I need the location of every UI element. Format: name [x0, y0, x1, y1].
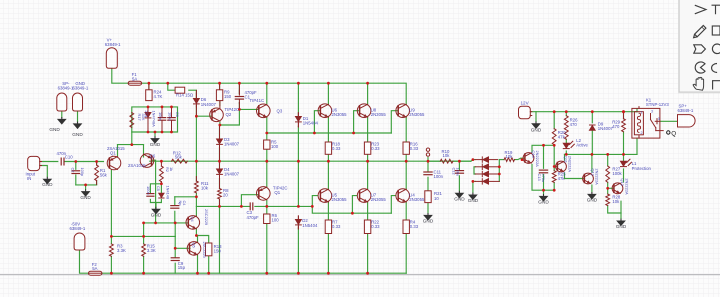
svg-text:0.33: 0.33: [332, 224, 341, 229]
wire gnd stem q13: [620, 213, 622, 218]
junction: [195, 234, 198, 237]
junction: [297, 272, 300, 275]
wire Q5 base: [175, 247, 190, 249]
svg-text:GND: GND: [587, 198, 598, 203]
connector V+ 63849-1: [106, 48, 117, 69]
wire C9 top: [174, 248, 176, 257]
junction: [313, 132, 316, 135]
wire bottom rail main: [102, 272, 406, 274]
wire Q4 emitter node: [196, 229, 208, 243]
transistor Q12 2N2222A: [583, 173, 594, 184]
junction: [161, 131, 164, 134]
resistor R20: [552, 129, 556, 145]
junction: [207, 272, 210, 275]
wire D9 top: [591, 112, 593, 123]
wire Q5 base line: [174, 236, 176, 248]
resistor R25: [552, 171, 556, 183]
wire Q6 base drop: [152, 160, 156, 223]
wire Q11 emitter to Q12 base: [565, 173, 584, 179]
wire bridge row1 entry: [471, 160, 475, 162]
transistor Q1 2SA1015: [107, 156, 121, 170]
resistor R11: [195, 181, 199, 193]
svg-text:150: 150: [224, 94, 232, 99]
junction: [265, 82, 268, 85]
ground: [58, 117, 66, 124]
wire bottom U4 emitter to R4: [405, 202, 407, 220]
wire C13 bottom: [543, 175, 545, 191]
junction: [565, 153, 568, 156]
icon text T: [712, 5, 720, 14]
ground: [538, 194, 549, 205]
wire bias column to bottom rail: [219, 206, 221, 273]
wire positive rail V+: [142, 83, 407, 104]
transistor Q6 2SA1015: [140, 154, 154, 168]
svg-text:2N3055: 2N3055: [332, 112, 348, 117]
wire R26 to LED L2: [565, 139, 567, 143]
junction: [174, 222, 177, 225]
connector -50V 63849-1: [74, 233, 85, 250]
svg-text:1N5404: 1N5404: [303, 121, 319, 126]
ground: [587, 192, 598, 203]
wire bottom U7 collector: [367, 161, 369, 189]
resistor R28: [606, 194, 610, 206]
junction: [542, 189, 545, 192]
junction: [591, 110, 594, 113]
fuse F1: [128, 81, 141, 85]
svg-text:GND: GND: [531, 128, 542, 133]
svg-text:100n: 100n: [146, 186, 151, 195]
svg-text:GND: GND: [538, 200, 549, 205]
svg-text:GND: GND: [423, 219, 434, 224]
junction: [297, 160, 300, 163]
svg-text:5A: 5A: [132, 77, 137, 82]
wire D1 column rail2 to rail3: [297, 161, 299, 206]
junction: [196, 272, 199, 275]
wire D2 to bottom rail: [297, 227, 299, 273]
icon ellipse tool: [712, 64, 718, 73]
wire R27 top: [607, 154, 609, 166]
zener ZD1 1N4748A: [145, 107, 151, 132]
svg-text:10: 10: [434, 196, 439, 201]
wire R20 bottom node: [553, 144, 555, 147]
wire tail to zener box: [131, 132, 133, 145]
ground: [468, 193, 479, 204]
svg-text:C2: C2: [71, 168, 76, 173]
wire protection node line: [565, 153, 638, 155]
wire bridge out to R19: [499, 159, 504, 161]
junction: [74, 160, 77, 163]
resistor R10: [440, 159, 453, 163]
svg-text:2N3055: 2N3055: [332, 197, 348, 202]
transistor Q10 2N2222A: [523, 153, 534, 164]
svg-text:Active: Active: [576, 142, 588, 147]
svg-text:56k: 56k: [175, 155, 183, 160]
wire C4 to line A: [174, 211, 176, 223]
svg-text:100: 100: [271, 144, 279, 149]
wire GND pill stub: [77, 111, 79, 122]
wire Q5 collector: [197, 236, 199, 243]
wire C1 bottom to Q3 base: [238, 103, 240, 110]
svg-text:150: 150: [214, 248, 222, 253]
svg-text:63849-1: 63849-1: [105, 42, 121, 47]
wire R6 to bottom rail: [266, 224, 268, 274]
connector SP+ 63849-1: [678, 115, 696, 127]
svg-text:GND: GND: [42, 182, 53, 187]
svg-text:1N4007: 1N4007: [201, 102, 217, 107]
wire R24 branch: [148, 83, 150, 90]
capacitor C5 100n: [158, 107, 165, 132]
svg-text:1: 1: [641, 111, 643, 115]
junction: [154, 131, 157, 134]
capacitor C8 100u: [168, 107, 175, 132]
wire R28 bottom to gnd node: [608, 206, 621, 213]
wire U7 base stub: [352, 196, 356, 214]
wire Q12 emitter: [591, 185, 593, 192]
ground: [150, 136, 161, 147]
junction: [553, 189, 556, 192]
wire C10 to diff base: [65, 161, 104, 163]
resistor R4b: [403, 220, 409, 234]
svg-text:Q6: Q6: [150, 153, 156, 158]
junction: [366, 82, 369, 85]
resistor R3: [110, 244, 114, 256]
transistor U7 2N3055: [357, 189, 371, 203]
wire output port stub: [427, 158, 429, 162]
wire bridge right vertical: [498, 160, 500, 182]
wire zener box gnd stem: [154, 132, 156, 136]
svg-text:1N4148: 1N4148: [165, 186, 170, 200]
wire U8 emitter to R23: [367, 117, 369, 142]
junction: [195, 160, 198, 163]
resistor R16b: [403, 142, 409, 154]
wire D4 to R8: [219, 179, 221, 189]
junction: [265, 132, 268, 135]
wire C4 down: [174, 197, 176, 205]
wire U8 collector: [367, 83, 369, 104]
wire C13 top: [543, 145, 545, 168]
junction: [110, 235, 113, 238]
wire R26 top: [565, 112, 567, 116]
junction: [161, 106, 164, 109]
junction: [327, 82, 330, 85]
svg-text:1N4748A: 1N4748A: [152, 111, 157, 128]
wire zener box outline: [132, 107, 178, 132]
wire D9 bottom: [591, 131, 593, 155]
wire Q3 base: [239, 108, 259, 110]
svg-text:2N3055: 2N3055: [409, 197, 425, 202]
svg-text:0.33: 0.33: [332, 146, 341, 151]
svg-text:63849-1: 63849-1: [678, 108, 694, 113]
wire R2 bottom node: [160, 182, 162, 184]
junction: [498, 173, 501, 176]
toolbar panel: [678, 0, 720, 94]
wire D3 to rail2: [219, 148, 221, 162]
svg-text:GND: GND: [454, 196, 465, 201]
capacitor C1: [235, 90, 243, 104]
svg-text:10k: 10k: [443, 153, 451, 158]
diode D9 1N4007: [590, 125, 596, 130]
svg-text:1N4007: 1N4007: [598, 126, 614, 131]
svg-text:470: 470: [570, 122, 578, 127]
svg-text:GND: GND: [72, 132, 83, 137]
wire R1 top: [96, 162, 98, 166]
junction: [142, 222, 145, 225]
svg-text:Q1: Q1: [274, 190, 280, 195]
wire L1 to Q13 collector: [623, 169, 625, 182]
wire R13 to bottom rail: [208, 256, 210, 273]
junction: [352, 132, 355, 135]
junction: [622, 110, 625, 113]
wire Q12 collector: [591, 154, 593, 172]
resistor R1: [95, 165, 99, 181]
wire Q6 emitter up: [143, 145, 145, 157]
svg-text:C5: C5: [156, 186, 161, 191]
wire D5 C5 split left: [150, 184, 161, 193]
wire L2 to node line: [565, 151, 567, 154]
junction: [154, 222, 157, 225]
svg-text:C8: C8: [175, 112, 180, 117]
wire top output base rail: [267, 132, 392, 134]
icon arc: [695, 62, 705, 73]
resistor R18: [325, 142, 331, 154]
junction: [366, 272, 369, 275]
ground: [42, 177, 53, 187]
ground: [151, 207, 162, 218]
wire D1 column top: [297, 83, 299, 116]
svg-text:4.7K: 4.7K: [154, 94, 163, 99]
resistor R19: [504, 158, 514, 162]
junction: [170, 131, 173, 134]
resistor R22: [364, 220, 370, 234]
resistor R13: [206, 243, 212, 256]
wire R19 to Q10 base: [515, 158, 525, 159]
junction: [142, 235, 145, 238]
junction: [195, 195, 198, 198]
resistor R24: [146, 90, 152, 101]
wire C2 tap: [75, 162, 77, 170]
wire bottom U5 emitter to R7: [327, 202, 329, 220]
icon rect tool: [712, 26, 720, 35]
capacitor C9 15p: [171, 258, 179, 261]
wire Q4 collector: [195, 197, 197, 216]
svg-text:IN: IN: [27, 176, 31, 181]
wire R7 to bottom rail: [327, 234, 329, 274]
svg-text:20: 20: [223, 193, 228, 198]
transistor U6 2N3055: [318, 104, 332, 118]
wire U4 base stub: [391, 196, 395, 214]
transistor Q2 TIP42C: [210, 108, 224, 122]
svg-text:100u: 100u: [168, 112, 173, 121]
ground: [454, 191, 465, 202]
wire Q2 collector node: [220, 109, 240, 125]
wire R9 top: [219, 83, 221, 90]
resistor R9: [216, 90, 222, 101]
diode D6 1N4007: [194, 93, 200, 107]
wire relay coil pin2 drop: [636, 138, 638, 154]
wire Q6 collector to R2 node: [150, 160, 162, 162]
junction: [311, 205, 314, 208]
ground: [80, 189, 91, 200]
wire R22 to bottom rail: [367, 234, 369, 274]
svg-text:0.33: 0.33: [410, 146, 419, 151]
junction: [351, 212, 354, 215]
svg-text:5A: 5A: [92, 266, 97, 271]
svg-text:0.33: 0.33: [410, 224, 419, 229]
junction: [147, 106, 150, 109]
svg-text:47k: 47k: [558, 134, 566, 139]
wire feedback line A: [144, 222, 189, 224]
resistor R29: [622, 119, 626, 132]
junction: [174, 247, 177, 250]
junction: [553, 144, 556, 147]
svg-text:2N3055: 2N3055: [409, 112, 425, 117]
wire U9 emitter to R16: [405, 117, 407, 142]
wire D3 top: [219, 125, 221, 138]
junction: [327, 272, 330, 275]
resistor R14: [175, 87, 185, 93]
wire comparator box bottom edge: [532, 165, 554, 191]
svg-text:2SC2229: 2SC2229: [204, 209, 209, 225]
svg-text:C4: C4: [182, 201, 187, 207]
svg-text:GND: GND: [151, 212, 162, 217]
junction: [218, 160, 221, 163]
wire R11 top: [195, 161, 197, 181]
svg-text:Q5: Q5: [191, 243, 196, 248]
svg-text:1k: 1k: [169, 167, 174, 171]
svg-text:3: 3: [651, 110, 653, 114]
wire R29 to L1: [623, 132, 625, 161]
wire diff emitter rail: [118, 144, 144, 146]
wire gnd stem input filter: [85, 185, 87, 189]
fuse F2: [89, 271, 102, 275]
transistor Q5 2SC2229: [187, 242, 201, 256]
wire C2 R1 gnd bus: [76, 184, 97, 186]
svg-text:10k: 10k: [201, 185, 209, 190]
diode D3 1N4007: [217, 135, 223, 149]
wire C12 top: [458, 161, 460, 169]
svg-text:Protection: Protection: [632, 166, 652, 171]
wire input pin2 to gnd: [41, 166, 47, 177]
wire Q13 base: [608, 187, 613, 189]
capacitor C10: [61, 158, 64, 165]
resistor R15: [142, 244, 146, 256]
junction: [170, 106, 173, 109]
svg-text:GND: GND: [150, 142, 161, 147]
svg-text:2N2222A: 2N2222A: [624, 178, 629, 195]
junction: [265, 272, 268, 275]
svg-text:5: 5: [658, 117, 660, 121]
resistor R5: [264, 140, 270, 149]
wire R14 to D6 column: [189, 90, 197, 98]
junction: [498, 165, 501, 168]
resistor R2: [160, 166, 164, 182]
svg-text:100k: 100k: [612, 171, 622, 176]
svg-text:TIP41C: TIP41C: [250, 98, 265, 103]
wire Q1 collector to rail3: [266, 200, 268, 207]
wire gnd stem vas filter: [155, 203, 157, 207]
capacitor C5b 100n: [147, 194, 154, 197]
capacitor C3 470pF: [250, 203, 253, 210]
wire negative bottom rail: [80, 250, 89, 274]
svg-text:100u: 100u: [456, 168, 461, 177]
svg-text:63849-1: 63849-1: [73, 86, 89, 91]
ground: [74, 122, 82, 129]
wire R25 bottom: [553, 183, 555, 191]
wire Q1 base drop: [241, 195, 258, 207]
wire U9 base stub: [391, 111, 397, 133]
svg-text:12V: 12V: [521, 100, 530, 105]
wire Q5 emitter: [197, 255, 199, 273]
wire D1 to rail2: [297, 126, 299, 161]
junction: [195, 115, 198, 118]
wire U5 base stub: [312, 196, 317, 207]
junction: [405, 160, 408, 163]
wire Q1 emitter up: [117, 145, 119, 157]
svg-text:ZD1: ZD1: [144, 111, 149, 118]
junction: [148, 82, 151, 85]
svg-text:GND: GND: [616, 224, 627, 229]
svg-text:GND: GND: [80, 195, 91, 200]
resistor R26: [564, 116, 568, 140]
junction: [95, 160, 98, 163]
resistor R17: [130, 113, 134, 128]
svg-text:10k: 10k: [506, 154, 514, 159]
resistor R23: [364, 142, 370, 154]
wire D6 to Q2 base node: [195, 106, 197, 116]
svg-text:R14 15Ω: R14 15Ω: [176, 92, 194, 97]
wire R3 bottom: [110, 256, 112, 273]
svg-text:100: 100: [272, 218, 280, 223]
svg-text:2SC2229: 2SC2229: [202, 242, 207, 258]
wire D5 branch: [160, 184, 162, 193]
junction: [130, 143, 133, 146]
capacitor C13: [539, 170, 547, 173]
icon select arrow: [695, 5, 706, 14]
junction: [472, 158, 475, 161]
junction: [160, 160, 163, 163]
wire D6 node down to rail2: [195, 116, 197, 161]
junction: [265, 205, 268, 208]
transistor Q7 TIP42C: [257, 187, 271, 201]
resistor R8: [218, 189, 222, 200]
svg-text:3.3K: 3.3K: [117, 248, 126, 253]
svg-text:2N2222A: 2N2222A: [568, 156, 573, 173]
junction: [427, 160, 430, 163]
wire R6 top: [266, 206, 268, 214]
svg-text:470pF: 470pF: [247, 215, 260, 220]
diode bridge DB row4: [475, 179, 499, 184]
junction: [553, 165, 556, 168]
wire R10 to bridge: [453, 160, 471, 162]
svg-text:2: 2: [641, 131, 643, 135]
diode bridge DB row2: [475, 164, 499, 169]
wire bottom U5 collector: [327, 161, 329, 189]
svg-text:100n: 100n: [434, 174, 444, 179]
wire R1 bottom: [96, 181, 98, 185]
svg-text:56k: 56k: [100, 172, 108, 177]
svg-text:STNP-12V3: STNP-12V3: [646, 102, 670, 107]
wire Q11 collector: [564, 154, 566, 160]
wire C11 to R21: [427, 177, 429, 191]
svg-text:63849-1: 63849-1: [70, 226, 86, 231]
capacitor C12 100u: [455, 171, 463, 174]
junction: [521, 158, 524, 161]
wire bridge left pair link: [474, 167, 475, 174]
junction: [472, 180, 475, 183]
port P1: [426, 148, 429, 156]
svg-text:Q4: Q4: [190, 217, 195, 223]
wire U6 collector: [327, 83, 329, 104]
